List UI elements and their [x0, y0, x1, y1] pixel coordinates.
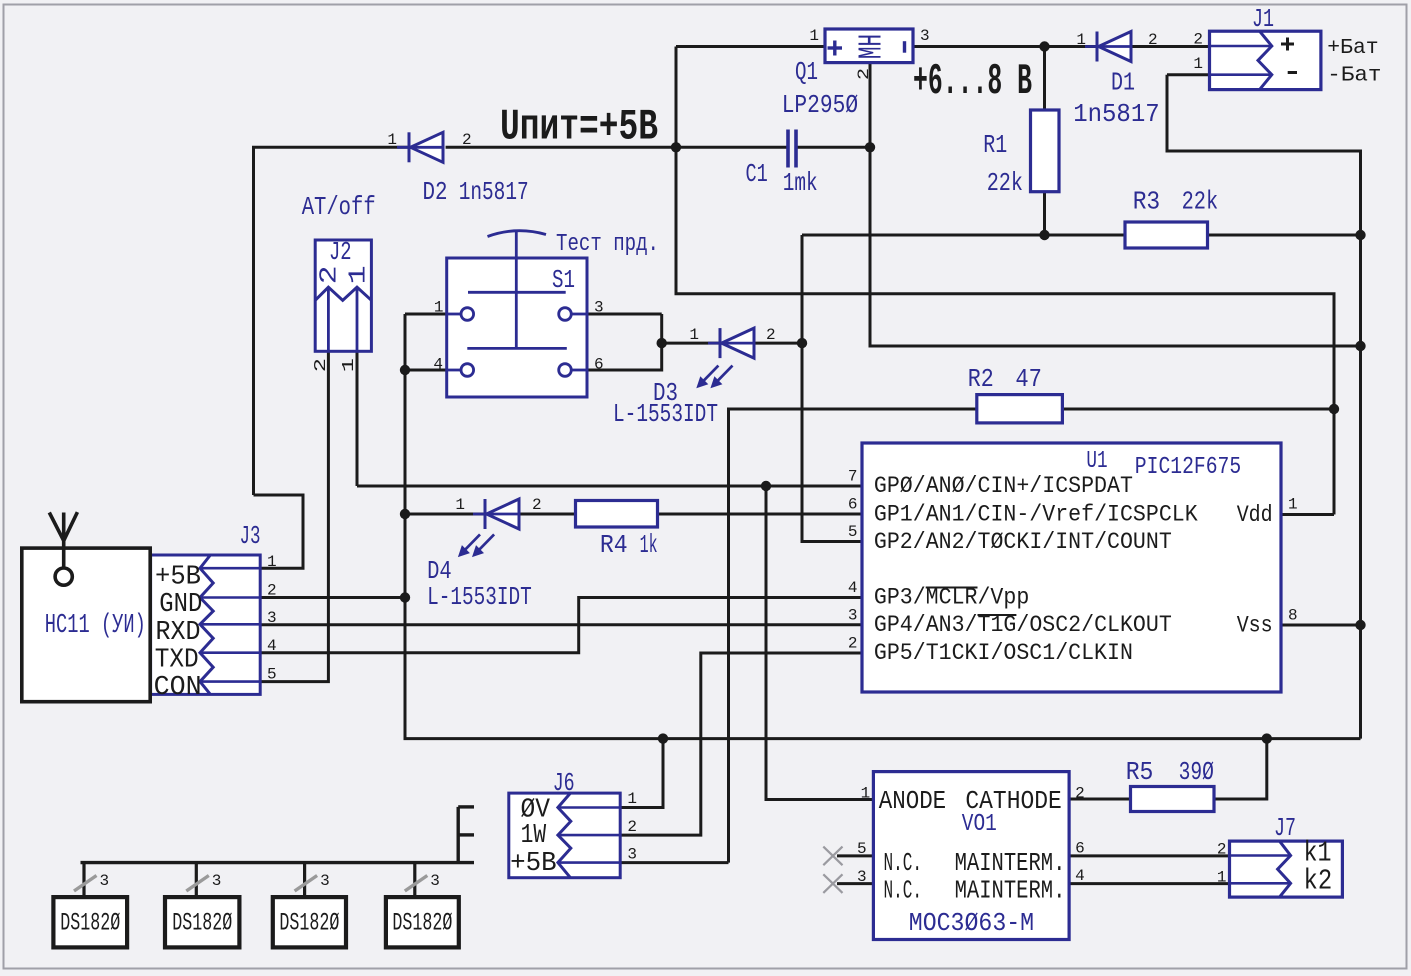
J1 plus symbol	[1281, 38, 1294, 51]
svg-text:+Бат: +Бат	[1327, 37, 1378, 60]
capacitor C1	[786, 130, 798, 168]
sensor DS1820 #1 body	[53, 897, 127, 947]
wire R4 to U1 GP1 pin6	[658, 513, 863, 516]
svg-text:Тест прд.: Тест прд.	[556, 231, 659, 258]
wire R3 to right bus	[1208, 234, 1361, 237]
svg-text:C1: C1	[746, 159, 768, 189]
svg-text:J3: J3	[240, 521, 261, 551]
wire J2 pin1 to U1 GP0 pin7	[357, 485, 862, 488]
junction GND / J3 pin2	[400, 592, 410, 602]
svg-text:DS182Ø: DS182Ø	[279, 909, 339, 938]
regulator Q1 LP2950 body	[825, 29, 913, 63]
junction R2 right / Vdd riser	[1329, 404, 1339, 414]
wire J3 pin1 +5B to riser	[254, 495, 304, 568]
svg-text:1: 1	[434, 299, 444, 317]
junction C1 net / right bus	[1355, 341, 1365, 351]
svg-text:2: 2	[1148, 31, 1158, 49]
wire bus bracket vertical	[457, 807, 460, 863]
connector J6 body	[509, 793, 620, 878]
svg-text:1: 1	[809, 27, 819, 45]
svg-text:3: 3	[430, 872, 440, 890]
svg-text:MOC3Ø63-M: MOC3Ø63-M	[909, 908, 1034, 938]
wire R1/R3 rail left segment	[802, 234, 1125, 237]
svg-text:2: 2	[1217, 841, 1227, 859]
svg-text:1: 1	[1217, 869, 1227, 887]
svg-text:4: 4	[267, 637, 277, 655]
junction bottom rail / J6 pin1	[658, 733, 668, 743]
svg-text:R3: R3	[1133, 187, 1161, 217]
wire D4 cathode to R4	[508, 513, 576, 516]
wire VO1 pin3 N.C. stub	[837, 882, 873, 885]
svg-text:DS182Ø: DS182Ø	[172, 909, 232, 938]
U1 T1G overline	[978, 614, 1017, 616]
svg-text:ANODE: ANODE	[879, 786, 947, 816]
svg-text:1: 1	[1193, 55, 1203, 73]
svg-text:Vdd: Vdd	[1237, 502, 1273, 528]
svg-text:5: 5	[848, 523, 858, 541]
DS1820 #1 bus slash mark	[74, 876, 97, 892]
wire DS1820 #2 drop	[195, 863, 198, 898]
wire R3-rail drop to U1 GP2 pin5	[802, 235, 862, 542]
LED D4 L-1553IDT	[473, 499, 519, 529]
junction R3 / right bus	[1355, 230, 1365, 240]
wire U1 Vss pin8 to bus	[1281, 624, 1361, 627]
S1 contact circles and stubs	[447, 308, 587, 377]
wire R5 right to bottom rail	[1214, 739, 1267, 799]
junction +6...8В node / R1 top	[1039, 41, 1049, 51]
wire J6 pin3 +5B riser to R2 left	[729, 409, 977, 863]
J2 chevron pins	[315, 287, 371, 300]
wire +5V rail to U1 Vdd riser	[676, 147, 1334, 514]
connector J7 body	[1230, 841, 1343, 897]
wire bracket arm to J6 row1	[458, 805, 474, 808]
connector J2 body	[315, 240, 371, 351]
svg-text:GP4/AN3/T1G/OSC2/CLKOUT: GP4/AN3/T1G/OSC2/CLKOUT	[874, 612, 1172, 638]
junction Uпит rail / Q1 pin1	[671, 142, 681, 152]
junction D3 anode / R3-rail drop	[797, 338, 807, 348]
svg-text:R1: R1	[983, 130, 1007, 160]
wire S1 pin6 lead	[587, 314, 662, 370]
svg-text:2: 2	[627, 818, 637, 836]
svg-text:GPØ/ANØ/CIN+/ICSPDAT: GPØ/ANØ/CIN+/ICSPDAT	[874, 473, 1133, 499]
wire DS1820 #1 drop	[82, 863, 85, 898]
svg-text:k2: k2	[1304, 864, 1333, 897]
svg-text:4: 4	[848, 579, 858, 597]
svg-text:1k: 1k	[640, 530, 658, 560]
svg-text:MAINTERM.: MAINTERM.	[955, 848, 1066, 878]
svg-text:1: 1	[345, 265, 372, 284]
J7 chevron pins	[1278, 841, 1291, 897]
wire U1 GP5 pin2 to J6 pin2 1W	[620, 653, 862, 835]
svg-text:Uпит=+5В: Uпит=+5В	[500, 103, 658, 153]
svg-text:R2: R2	[968, 364, 994, 394]
svg-text:2: 2	[312, 358, 331, 372]
resistor R1	[1031, 110, 1060, 192]
U1 MCLR overline	[926, 587, 978, 589]
svg-text:GP2/AN2/TØCKI/INT/COUNT: GP2/AN2/TØCKI/INT/COUNT	[874, 529, 1172, 555]
wire D1 anode to J1 pin2	[1131, 45, 1210, 48]
wire J1 pin1 stub	[1167, 73, 1210, 76]
wire Q1 pin1 lead	[676, 45, 825, 48]
svg-text:2: 2	[1075, 785, 1085, 803]
wire DS1820 #3 drop	[303, 863, 306, 898]
junction C1 right / Q1 pin2	[865, 142, 875, 152]
svg-text:D1: D1	[1111, 68, 1135, 98]
svg-text:8: 8	[1288, 607, 1298, 625]
svg-text:7: 7	[848, 468, 858, 486]
resistor R3	[1125, 222, 1208, 248]
J6 chevron pins	[558, 793, 571, 878]
svg-text:4: 4	[1075, 867, 1085, 885]
svg-text:3: 3	[594, 299, 604, 317]
LED D3 L-1553IDT	[708, 328, 754, 358]
svg-text:3: 3	[320, 872, 330, 890]
svg-text:1W: 1W	[521, 821, 547, 851]
svg-text:S1: S1	[552, 265, 575, 295]
svg-text:Vss: Vss	[1237, 613, 1273, 639]
VO1 pin5 N.C. cross	[823, 847, 842, 866]
svg-text:1mk: 1mk	[783, 168, 818, 198]
svg-text:3: 3	[212, 872, 222, 890]
svg-text:1: 1	[1076, 31, 1086, 49]
wire J2 pin2 to J3 CON pin5	[260, 351, 328, 681]
svg-text:2: 2	[766, 326, 776, 344]
wire J3 GND pin2 stub	[260, 596, 405, 599]
sensor DS1820 #2 body	[165, 897, 239, 947]
svg-text:MAINTERM.: MAINTERM.	[955, 876, 1066, 906]
svg-text:47: 47	[1015, 364, 1042, 394]
wire Uпит rail: J3 +5B riser to D2 anode	[254, 147, 410, 495]
D3 LED arrows	[696, 366, 732, 389]
wire GND vertical and bottom rail	[405, 314, 1361, 739]
optocoupler VO1 MOC3063-M body	[873, 772, 1069, 940]
svg-text:LP295Ø: LP295Ø	[782, 90, 858, 120]
svg-text:U1: U1	[1086, 448, 1107, 475]
svg-text:+5B: +5B	[155, 563, 201, 593]
Q1 plus symbol	[828, 41, 843, 56]
svg-text:VO1: VO1	[962, 811, 997, 838]
svg-text:6: 6	[1075, 840, 1085, 858]
wire R2 right to Vdd riser	[1062, 408, 1334, 411]
svg-text:1: 1	[267, 553, 277, 571]
svg-text:39Ø: 39Ø	[1179, 757, 1214, 787]
J1 chevron pins	[1258, 31, 1272, 89]
wire D4 anode lead	[405, 513, 485, 516]
wire S1 node to D3 cathode	[662, 342, 720, 345]
svg-text:N.C.: N.C.	[884, 876, 923, 906]
svg-text:DS182Ø: DS182Ø	[60, 909, 120, 938]
connector J1 body	[1210, 31, 1321, 89]
svg-text:L-1553IDT: L-1553IDT	[427, 582, 532, 612]
DS1820 #3 bus slash mark	[295, 876, 318, 892]
wire Q1 pin1 drop to Uпит rail	[675, 47, 678, 148]
svg-text:N.C.: N.C.	[884, 848, 923, 878]
wire U1 Vdd pin1 stub	[1281, 513, 1334, 516]
connector J3 body	[151, 555, 261, 694]
svg-text:CON: CON	[154, 673, 202, 703]
wire D3 anode to R3-rail drop	[743, 342, 803, 345]
IC U1 PIC12F675 body	[862, 443, 1281, 692]
svg-text:AT/off: AT/off	[302, 192, 376, 222]
wire D2 cathode to C1 left / node Uпит=+5В	[446, 146, 788, 149]
wire DS1820 1-wire bus	[81, 861, 475, 864]
svg-text:R4: R4	[600, 530, 628, 560]
sensor DS1820 #4 body	[386, 897, 459, 947]
VO1 pin3 N.C. cross	[823, 874, 842, 893]
wire J2 pin1 drop	[356, 351, 359, 486]
svg-text:D2: D2	[423, 177, 448, 207]
junction S1 pins 3-6 / D3	[657, 338, 667, 348]
svg-text:1: 1	[387, 131, 397, 149]
svg-text:МН: МН	[854, 34, 891, 59]
S1 actuator arc	[488, 231, 547, 237]
wire VO1 pin2 CATHODE to R5	[1069, 798, 1130, 801]
wire VO1 pin4 MAINTERM to J7 pin1	[1069, 882, 1229, 885]
module HC11 (УИ) body	[22, 548, 150, 702]
DS1820 #4 bus slash mark	[405, 876, 428, 892]
svg-text:2: 2	[267, 582, 277, 600]
svg-text:22k: 22k	[987, 168, 1023, 198]
svg-text:Q1: Q1	[795, 57, 818, 87]
wire J1 pin1 to right bus -Бат	[1167, 75, 1361, 739]
junction R1 bottom / R3 rail	[1039, 230, 1049, 240]
svg-text:R5: R5	[1126, 757, 1154, 787]
svg-text:5: 5	[267, 666, 277, 684]
svg-text:1: 1	[627, 790, 637, 808]
wire GP0 node down to VO1 pin1 ANODE	[766, 486, 873, 800]
switch S1 body	[447, 258, 587, 397]
svg-text:J2: J2	[329, 237, 352, 267]
svg-text:RXD: RXD	[156, 618, 201, 648]
svg-text:3: 3	[627, 846, 637, 864]
wire J3 RXD pin3 to U1 GP4 pin3	[260, 623, 862, 626]
svg-text:2: 2	[1193, 30, 1203, 48]
wire VO1 pin6 MAINTERM to J7 pin2	[1069, 854, 1229, 857]
svg-text:-Бат: -Бат	[1327, 64, 1381, 87]
S1 plunger	[515, 230, 518, 349]
svg-text:НС11 (УИ): НС11 (УИ)	[45, 611, 146, 641]
DS1820 #2 bus slash mark	[186, 876, 209, 892]
resistor R5	[1131, 787, 1215, 812]
resistor R4	[576, 501, 658, 528]
svg-text:2: 2	[532, 496, 542, 514]
svg-text:2: 2	[855, 68, 873, 80]
svg-text:TXD: TXD	[155, 646, 199, 676]
svg-text:DS182Ø: DS182Ø	[392, 909, 452, 938]
wire S1 pin1 lead	[405, 313, 447, 316]
sensor DS1820 #3 body	[273, 897, 346, 947]
junction bottom rail / R5	[1262, 733, 1272, 743]
wire R1 bottom stub	[1043, 192, 1046, 235]
svg-text:6: 6	[848, 496, 858, 514]
svg-text:PIC12F675: PIC12F675	[1135, 454, 1241, 481]
svg-text:1: 1	[689, 326, 699, 344]
svg-text:3: 3	[267, 609, 277, 627]
wire C1 right to Q1 pin2 node	[798, 146, 871, 149]
D4 LED arrows	[458, 534, 494, 557]
svg-text:4: 4	[433, 356, 443, 374]
svg-text:2: 2	[317, 265, 344, 284]
resistor R2	[977, 395, 1063, 423]
Q1 minus symbol	[903, 41, 906, 53]
svg-text:J1: J1	[1252, 4, 1274, 34]
wire VO1 pin5 N.C. stub	[837, 854, 873, 857]
svg-text:3: 3	[848, 607, 858, 625]
wire DS1820 #4 drop	[413, 863, 416, 898]
wire J3 TXD pin4 jog to U1 GP3 pin4	[260, 598, 862, 653]
svg-text:1n5817: 1n5817	[1073, 99, 1160, 129]
svg-text:3: 3	[857, 868, 867, 886]
svg-text:1: 1	[340, 358, 359, 372]
wire bracket arm to J6 row2	[458, 833, 474, 836]
junction Vss / right bus	[1355, 620, 1365, 630]
svg-text:J6: J6	[553, 768, 575, 798]
S1 contact bars	[467, 292, 567, 348]
svg-text:J7: J7	[1274, 813, 1296, 843]
svg-text:2: 2	[848, 635, 858, 653]
svg-text:+6...8 В: +6...8 В	[913, 57, 1032, 107]
svg-text:1: 1	[455, 496, 465, 514]
svg-text:L-1553IDT: L-1553IDT	[613, 399, 718, 429]
svg-text:2: 2	[462, 131, 472, 149]
J3 chevron pins	[200, 555, 213, 694]
svg-text:3: 3	[920, 27, 930, 45]
diode D2 1n5817	[397, 132, 443, 162]
junction GND / D4 anode	[400, 509, 410, 519]
wire Q1 pin2 / C1 node down and right to bus	[870, 63, 1361, 346]
junction S1 pin1/pin4 GND	[400, 365, 410, 375]
svg-text:GP1/AN1/CIN-/Vref/ICSPCLK: GP1/AN1/CIN-/Vref/ICSPCLK	[874, 502, 1198, 528]
svg-text:6: 6	[594, 356, 604, 374]
wire S1 pin3 lead	[587, 313, 662, 316]
wire S1 pin4 lead	[405, 369, 447, 372]
svg-text:1: 1	[1288, 496, 1298, 514]
HC11 antenna	[49, 512, 77, 585]
wire Q1 pin3 to D1 / node +6...8В	[913, 45, 1097, 48]
svg-text:GND: GND	[159, 590, 202, 620]
svg-text:+5B: +5B	[510, 849, 557, 879]
svg-text:3: 3	[100, 872, 110, 890]
diode D1 1n5817	[1085, 32, 1131, 62]
svg-text:22k: 22k	[1182, 187, 1219, 217]
svg-text:5: 5	[857, 840, 867, 858]
svg-text:1n5817: 1n5817	[459, 177, 529, 207]
svg-text:GP5/T1CKI/OSC1/CLKIN: GP5/T1CKI/OSC1/CLKIN	[874, 640, 1133, 666]
J1 minus symbol	[1288, 71, 1297, 74]
wire bottom rail to J6 pin1 0V	[620, 739, 663, 808]
svg-text:1: 1	[861, 785, 871, 803]
wire J6 pin3 stub	[620, 861, 728, 864]
junction GP0 / VO1 anode drop	[761, 481, 771, 491]
wire node +6...8В to R1 top	[1043, 47, 1046, 111]
